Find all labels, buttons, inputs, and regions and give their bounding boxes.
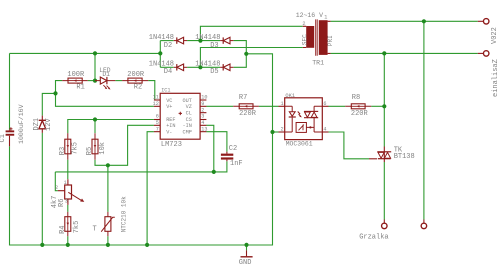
wire live drop to Grzalka	[423, 21, 425, 219]
wire -IN riser to pin4	[206, 125, 214, 172]
svg-text:12V: 12V	[45, 118, 53, 131]
junction neutral / triac	[382, 51, 386, 55]
LED D1	[95, 67, 115, 90]
wire R8 to triac net	[371, 105, 384, 107]
wire LED drop	[94, 53, 96, 80]
wire R2 to IC1 pin11	[148, 81, 160, 100]
wire D3 right	[234, 41, 247, 54]
wire OK1 pin6 to R8	[329, 105, 346, 107]
svg-text:D3: D3	[210, 42, 218, 50]
wire +IN net R5 bottom	[95, 125, 154, 165]
svg-text:C2: C2	[229, 145, 237, 153]
svg-text:SEC: SEC	[302, 34, 309, 45]
svg-text:1: 1	[324, 15, 327, 21]
wire CMP pin13 to C2	[206, 132, 227, 152]
svg-text:D2: D2	[164, 42, 172, 50]
svg-text:einalisaZ: einalisaZ	[492, 59, 499, 97]
svg-text:11: 11	[153, 95, 159, 101]
junction AC2 node	[198, 65, 202, 69]
svg-text:100R: 100R	[67, 71, 85, 79]
wire R6 wiper	[55, 172, 58, 191]
svg-text:D4: D4	[164, 68, 172, 76]
junction V+ rail / LED drop	[93, 51, 97, 55]
pin 7 V-	[154, 131, 160, 133]
svg-text:9: 9	[201, 101, 204, 107]
svg-text:R5: R5	[86, 147, 94, 155]
svg-text:R8: R8	[352, 94, 360, 102]
diode D4 1N4148	[149, 60, 187, 76]
terminal Grzalka 2	[421, 220, 427, 229]
pin 2 CL	[200, 112, 206, 114]
wire R5 top	[94, 120, 96, 134]
svg-text:LM723: LM723	[161, 141, 182, 149]
svg-text:2: 2	[201, 107, 204, 113]
wire node to IC1 pin12 V+	[56, 93, 154, 106]
pin 13 CMP	[200, 131, 206, 133]
junction rail / NTC	[106, 243, 110, 247]
wire D2-D3 node AC1	[187, 40, 220, 42]
svg-text:V+: V+	[166, 104, 172, 110]
svg-text:VZ: VZ	[186, 104, 192, 110]
resistor R2 200R	[122, 71, 148, 92]
pin 3 CS	[200, 119, 206, 121]
svg-text:4k7: 4k7	[51, 196, 59, 209]
wire triac MT1 to Grzalka	[383, 162, 385, 220]
pin 12 V+	[154, 105, 160, 107]
svg-text:CS: CS	[186, 117, 192, 123]
optocoupler OK1 MOC3061	[279, 93, 329, 147]
junction REF / R5	[93, 117, 97, 121]
pin 9 VZ	[200, 105, 206, 107]
wire mains neutral	[331, 52, 478, 54]
svg-text:6: 6	[323, 101, 326, 107]
svg-text:12~16 V: 12~16 V	[296, 12, 323, 19]
svg-text:NTC210 10k: NTC210 10k	[120, 196, 127, 232]
wire bridge left vertical DC+	[159, 41, 161, 68]
svg-text:OK1: OK1	[285, 93, 295, 99]
svg-text:BT138: BT138	[394, 153, 415, 161]
svg-text:12: 12	[153, 101, 159, 107]
wire OK1 pin2	[273, 131, 279, 133]
svg-text:R6: R6	[58, 199, 66, 207]
TR1 pin stubs	[303, 21, 331, 53]
terminal 220V top	[478, 19, 499, 44]
svg-text:C1: C1	[0, 134, 7, 142]
svg-text:5: 5	[156, 120, 159, 126]
pin 4 -IN	[200, 124, 206, 126]
svg-text:1000uF/16V: 1000uF/16V	[18, 104, 25, 144]
junction DZ1 node	[53, 91, 57, 95]
svg-text:T: T	[93, 225, 97, 233]
triac TK BT138	[369, 146, 415, 162]
svg-text:GND: GND	[239, 259, 252, 267]
resistor R5 10k	[86, 133, 107, 160]
junction rail / DZ1	[40, 243, 44, 247]
resistor R4 7k5	[59, 212, 81, 236]
wire NTC top	[107, 165, 109, 212]
wire C1 top lead	[9, 53, 11, 129]
transformer TR1	[296, 12, 334, 66]
svg-text:CMP: CMP	[183, 130, 192, 136]
wire D4-D5 node AC2	[187, 66, 220, 68]
svg-text:R2: R2	[134, 84, 142, 92]
svg-text:D5: D5	[210, 68, 218, 76]
junction rail / R4	[66, 243, 70, 247]
junction rail / V-	[145, 243, 149, 247]
capacitor C1	[0, 104, 25, 146]
op-amp regulator IC1 LM723	[153, 87, 208, 149]
svg-text:Grzalka: Grzalka	[359, 233, 388, 241]
resistor R1 100R	[62, 71, 87, 92]
junction R1 / LED	[93, 79, 97, 83]
junction R5 / NTC	[106, 163, 110, 167]
pin 10 OUT	[200, 99, 206, 101]
svg-text:IC1: IC1	[161, 87, 170, 93]
wire DZ1 top branch	[42, 93, 55, 115]
wire D5 right	[234, 54, 247, 68]
svg-text:+IN: +IN	[166, 123, 175, 129]
pin 11 VC	[154, 99, 160, 101]
wire GND stub	[246, 245, 248, 251]
wire V- IC1 pin7 to rail	[147, 132, 154, 245]
svg-text:V022: V022	[491, 27, 499, 44]
svg-text:13: 13	[201, 126, 207, 132]
junction bridge DC-	[244, 52, 248, 56]
svg-text:CL: CL	[186, 111, 192, 117]
svg-text:2: 2	[302, 21, 305, 27]
svg-text:1nF: 1nF	[230, 160, 243, 168]
svg-text:7: 7	[156, 126, 159, 132]
svg-text:200R: 200R	[127, 71, 145, 79]
TR1 primary winding	[319, 20, 328, 55]
svg-text:2: 2	[55, 185, 58, 191]
junction R8 / triac net	[382, 104, 386, 108]
pin 6	[322, 105, 328, 107]
svg-text:1: 1	[64, 180, 67, 186]
svg-text:REF: REF	[166, 117, 175, 123]
wire mains live top	[331, 20, 478, 22]
TR1 secondary winding	[306, 26, 314, 48]
svg-text:OUT: OUT	[183, 98, 192, 104]
junction rail / GND	[244, 243, 248, 247]
diode D5 1N4148	[195, 60, 233, 76]
svg-text:R4: R4	[59, 225, 67, 233]
wire D2 left	[160, 40, 173, 42]
ground GND	[239, 250, 253, 267]
svg-text:-IN: -IN	[183, 123, 192, 129]
pin 6 REF	[154, 119, 160, 121]
potentiometer R6 4k7	[51, 179, 84, 208]
svg-text:6: 6	[156, 114, 159, 120]
resistor R8 220R	[345, 94, 371, 118]
wire REF to R3 top	[68, 120, 154, 134]
wire AC1 to TR1 SEC top	[200, 26, 302, 40]
wire R7 to OK1 pin1	[259, 105, 279, 107]
svg-text:PRI: PRI	[327, 35, 334, 46]
svg-text:1N4148: 1N4148	[195, 34, 220, 42]
junction AC1 node	[198, 39, 202, 43]
svg-text:1: 1	[280, 101, 283, 107]
svg-text:220R: 220R	[351, 110, 369, 118]
wire R4 bottom	[67, 236, 69, 245]
pin 4	[322, 131, 328, 133]
diode D2 1N4148	[149, 34, 187, 50]
thermistor T NTC210 10k	[93, 196, 128, 236]
svg-text:4: 4	[323, 127, 326, 133]
svg-text:R7: R7	[239, 94, 247, 102]
svg-text:3: 3	[201, 114, 204, 120]
diode D3 1N4148	[195, 34, 233, 50]
junction OK1 pin2 net	[270, 130, 274, 134]
svg-text:R1: R1	[76, 84, 84, 92]
svg-text:10k: 10k	[99, 142, 107, 155]
pin 1	[279, 105, 285, 107]
wire D4 left	[160, 66, 173, 68]
pin 2	[279, 131, 285, 133]
junction V+ rail / bridge	[158, 51, 162, 55]
wire OK1 pin4 to gate	[329, 132, 370, 159]
svg-text:2: 2	[280, 127, 283, 133]
resistor R3 7k5	[59, 133, 80, 160]
capacitor C2 1nF	[221, 145, 243, 168]
wire top-left V+ rail	[10, 52, 161, 54]
svg-text:TR1: TR1	[312, 59, 324, 66]
svg-text:4: 4	[201, 120, 204, 126]
zener diode DZ1 12V	[33, 116, 53, 133]
wire NTC bottom	[107, 236, 109, 245]
pin 5 +IN	[154, 124, 160, 126]
svg-text:R3: R3	[59, 147, 67, 155]
svg-text:DZ1: DZ1	[33, 118, 41, 131]
TR1 core	[316, 19, 318, 55]
resistor R7 220R	[233, 94, 259, 118]
terminal Grzalka 1	[382, 220, 388, 229]
svg-text:7k5: 7k5	[73, 221, 81, 234]
wire triac MT2	[383, 53, 385, 146]
svg-text:VC: VC	[166, 98, 172, 104]
wire GND spine	[10, 54, 273, 245]
wire DZ1 bottom	[41, 133, 43, 245]
svg-text:10: 10	[201, 95, 207, 101]
svg-text:7k5: 7k5	[72, 142, 80, 155]
wire R3 to R6	[67, 160, 69, 180]
svg-text:1N4148: 1N4148	[149, 34, 174, 42]
wire -IN horizontal net	[55, 161, 227, 172]
wire R1-LED	[88, 80, 95, 82]
wire R1 left to node	[56, 81, 63, 94]
svg-text:220R: 220R	[239, 110, 257, 118]
svg-text:D1: D1	[102, 71, 110, 78]
svg-text:V-: V-	[166, 130, 172, 136]
terminal Zasilanie	[478, 51, 499, 97]
wire LED-R2	[115, 80, 122, 82]
junction -IN / C2	[212, 170, 216, 174]
svg-text:MOC3061: MOC3061	[286, 140, 313, 147]
wire AC2 to TR1 SEC bottom	[200, 48, 302, 68]
junction live / Grzalka drop	[422, 19, 426, 23]
wire UZ pin9 to R7	[206, 105, 233, 107]
wire R6 to R4	[67, 205, 69, 212]
